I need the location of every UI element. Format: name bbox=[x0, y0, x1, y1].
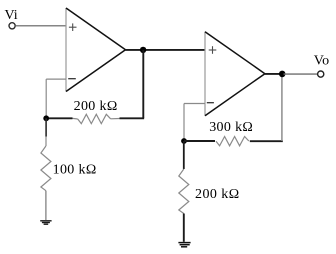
node A (U1 output junction) bbox=[140, 47, 146, 53]
node C (U2 feedback junction) bbox=[181, 138, 187, 144]
terminal Vi bbox=[9, 23, 15, 29]
resistor R4 200 k ohm zigzag bbox=[179, 169, 189, 214]
svg-text:200 kΩ: 200 kΩ bbox=[195, 187, 240, 202]
resistor R2 100 k ohm zigzag bbox=[41, 146, 51, 191]
terminal Vo bbox=[318, 71, 324, 77]
wire Vi to op-amp U1 + input bbox=[16, 25, 66, 27]
op-amp U2 minus sign bbox=[207, 102, 214, 104]
wire gray stub right of R1 bbox=[111, 118, 120, 120]
wire node A down to feedback resistor bbox=[142, 50, 144, 118]
resistor R3 300 k ohm zigzag bbox=[216, 137, 249, 146]
wire R3 right to corner bbox=[250, 140, 283, 142]
svg-text:Vi: Vi bbox=[5, 8, 18, 23]
wire node C down to R4 bbox=[183, 141, 185, 169]
node D (U2 output junction) bbox=[279, 71, 286, 78]
node B (U1 feedback junction) bbox=[43, 115, 49, 121]
svg-text:100 kΩ: 100 kΩ bbox=[53, 162, 97, 177]
wire node B down (dark part) bbox=[45, 118, 47, 136]
op-amp U2 plus sign bbox=[209, 46, 217, 54]
op-amp U2 top diagonal bbox=[205, 32, 265, 74]
ground G2 bbox=[178, 243, 190, 247]
wire U1 output to U2 + input bbox=[126, 49, 206, 51]
wire gray stub left of R1 bbox=[73, 117, 78, 120]
wire U2 output bbox=[265, 73, 283, 75]
wire node C to R3 left bbox=[184, 140, 215, 142]
wire U2 - input stub bbox=[184, 103, 205, 105]
svg-text:300 kΩ: 300 kΩ bbox=[209, 120, 253, 135]
wire node D to Vo terminal bbox=[284, 73, 318, 75]
op-amp U1 left edge bbox=[65, 8, 67, 92]
resistor R1 200 k ohm zigzag bbox=[78, 114, 111, 123]
op-amp U1 top diagonal bbox=[66, 8, 126, 50]
wire R2 bottom to ground bbox=[45, 191, 47, 220]
svg-text:Vo: Vo bbox=[314, 54, 329, 69]
wire U1 - input stub bbox=[46, 78, 66, 80]
op-amp U2 left edge bbox=[204, 32, 206, 116]
wire corner to R1 right end bbox=[120, 117, 145, 119]
op-amp U2 bottom diagonal bbox=[205, 74, 265, 116]
wire gray stub above R2 bbox=[45, 137, 47, 147]
svg-text:200 kΩ: 200 kΩ bbox=[74, 99, 118, 114]
wire feedback down to node C bbox=[183, 104, 185, 140]
op-amp U1 bottom diagonal bbox=[66, 50, 126, 92]
wire R4 bottom to ground bbox=[183, 214, 185, 242]
op-amp U1 minus sign bbox=[68, 78, 76, 80]
wire node B to R1 left bbox=[46, 117, 72, 119]
wire corner up to node D bbox=[281, 74, 283, 141]
ground G1 bbox=[40, 221, 51, 224]
op-amp U1 plus sign bbox=[69, 23, 77, 31]
wire feedback down to node B bbox=[45, 79, 47, 116]
